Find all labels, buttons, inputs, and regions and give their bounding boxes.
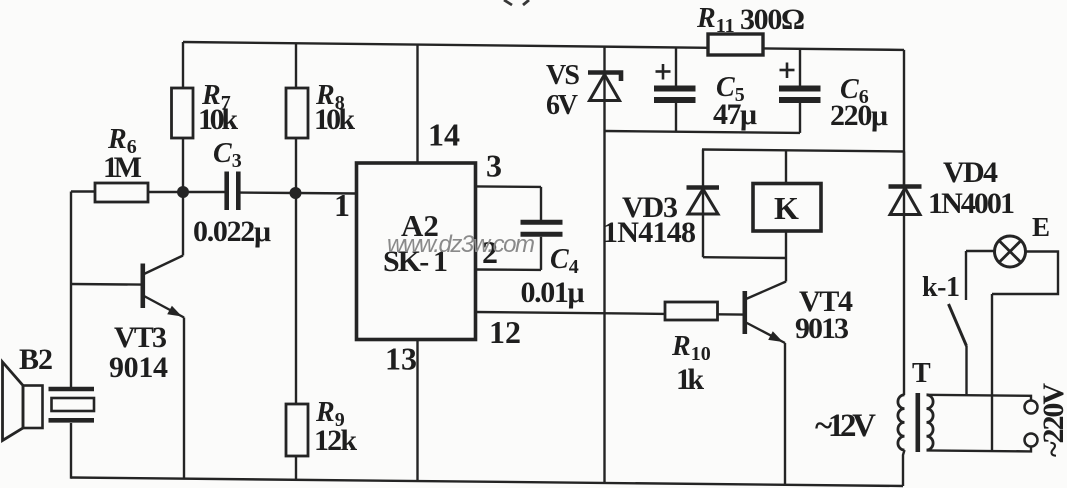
svg-text:VS: VS xyxy=(546,60,580,91)
capacitor C3 plates xyxy=(227,172,239,211)
transistor VT3 emitter line xyxy=(144,296,184,318)
wire left vertical (B2/base/R6 node) xyxy=(70,192,72,388)
transformer T primary winding xyxy=(898,395,905,450)
wire transformer primary bottom lead xyxy=(903,450,905,486)
top cut figure mark left xyxy=(504,0,512,5)
svg-text:K: K xyxy=(774,190,799,226)
op-amp U1 IC A2 box xyxy=(357,163,476,340)
svg-text:3: 3 xyxy=(486,148,502,184)
svg-text:B2: B2 xyxy=(19,343,53,376)
svg-text:9013: 9013 xyxy=(795,312,849,345)
svg-text:10k: 10k xyxy=(314,103,355,136)
zener diode VS cathode bar xyxy=(588,73,621,82)
svg-text:9014: 9014 xyxy=(109,351,168,384)
transistor VT3 collector line xyxy=(144,256,183,275)
transistor VT4 emitter arrow xyxy=(768,331,783,342)
wire VT3 emitter to ground xyxy=(183,318,185,479)
transistor VT4 emitter line xyxy=(746,323,785,344)
piezo element disc xyxy=(52,398,95,411)
wire right-side vertical 12V feed xyxy=(903,50,905,185)
diode VD4 cathode bar xyxy=(889,184,922,189)
wire C4 top lead xyxy=(540,187,542,220)
svg-text:www.dz3w.com: www.dz3w.com xyxy=(387,231,535,258)
wire R9 top lead xyxy=(295,193,297,404)
wire R6 right lead xyxy=(148,191,183,193)
wire C5 bottom lead xyxy=(675,103,677,132)
wire C6 bottom lead xyxy=(799,103,801,133)
capacitor C4 plates xyxy=(521,222,563,234)
wire VD4 anode lead down to transformer xyxy=(903,188,905,395)
transistor Q1 VT3 base bar xyxy=(141,264,146,309)
node junction dot A xyxy=(177,186,189,198)
transistor VT3 emitter arrow xyxy=(167,306,182,317)
wire R6 left lead xyxy=(71,190,95,192)
resistor R9 xyxy=(286,404,308,456)
wire VD3 anode horizontal to collector node xyxy=(703,256,786,259)
svg-text:1N4001: 1N4001 xyxy=(928,187,1015,220)
resistor R7 xyxy=(172,88,194,138)
svg-text:10k: 10k xyxy=(198,103,238,136)
svg-text:6V: 6V xyxy=(546,90,578,121)
wire K coil top lead xyxy=(785,150,787,183)
node junction dot B xyxy=(290,187,302,199)
transformer T core xyxy=(916,393,921,452)
wire lamp left lead xyxy=(966,250,995,252)
svg-text:1M: 1M xyxy=(103,151,142,184)
wire k-1 fixed contact xyxy=(965,251,967,300)
wire ground vertical from VS xyxy=(603,75,605,484)
C5 plus sign xyxy=(656,64,671,80)
wire C5 top lead xyxy=(675,48,677,87)
wire R7 bottom lead xyxy=(182,138,184,192)
wire R10 right lead xyxy=(718,313,743,316)
wire lamp return vertical xyxy=(991,294,993,451)
svg-text:300Ω: 300Ω xyxy=(740,3,805,36)
wire relay +12V rail xyxy=(702,150,904,152)
C6 plus sign xyxy=(780,63,795,79)
wire C3 right lead xyxy=(241,191,296,194)
svg-text:k-1: k-1 xyxy=(922,272,960,303)
svg-text:13: 13 xyxy=(385,341,417,377)
wire IC pin 1 lead xyxy=(296,192,357,195)
svg-text:VT3: VT3 xyxy=(114,321,167,354)
svg-text:~12V: ~12V xyxy=(815,408,876,444)
wire bottom ground rail xyxy=(71,478,903,487)
wire secondary bottom lead xyxy=(927,446,1032,451)
svg-text:0.01μ: 0.01μ xyxy=(521,276,585,309)
svg-text:C4: C4 xyxy=(550,244,579,278)
piezo element bottom plate xyxy=(49,418,95,423)
zener diode VS triangle xyxy=(590,75,620,101)
svg-text:12: 12 xyxy=(489,314,521,350)
wire IC pin 2 lead xyxy=(476,268,542,271)
diode VD3 triangle xyxy=(688,189,718,214)
wire secondary top lead xyxy=(927,395,1032,401)
terminal circle top xyxy=(1025,401,1038,414)
wire VS top lead xyxy=(603,47,605,71)
svg-text:VD4: VD4 xyxy=(943,156,998,189)
wire left vertical below piezo xyxy=(70,423,72,479)
wire relay rail down corner at x904 (to VD4) xyxy=(903,152,905,187)
speaker B2 driver box xyxy=(23,386,43,429)
svg-text:1k: 1k xyxy=(676,363,704,396)
svg-text:0.022μ: 0.022μ xyxy=(193,215,271,248)
wire IC pin 3 lead xyxy=(476,185,542,188)
wire IC pin 13 lead xyxy=(416,340,418,482)
speaker B2 cone xyxy=(3,362,24,441)
svg-text:1: 1 xyxy=(334,187,350,223)
svg-text:T: T xyxy=(912,358,931,389)
wire C3 left lead xyxy=(183,191,225,193)
wire VD3 top lead xyxy=(702,150,704,187)
svg-text:220μ: 220μ xyxy=(830,99,888,132)
wire C4 bottom lead xyxy=(540,237,542,270)
switch k-1 blade xyxy=(949,304,967,346)
svg-text:1N4148: 1N4148 xyxy=(603,216,696,249)
wire lamp right lead xyxy=(992,252,1058,295)
svg-text:14: 14 xyxy=(428,117,460,153)
svg-text:C3: C3 xyxy=(213,138,242,172)
svg-text:E: E xyxy=(1032,212,1050,242)
wire R8 top lead xyxy=(295,43,297,88)
resistor R8 xyxy=(286,88,308,138)
transistor Q2 VT4 base bar xyxy=(743,291,748,334)
wire R8 bottom lead xyxy=(295,138,297,193)
wire VT3 base lead xyxy=(71,283,141,286)
svg-text:47μ: 47μ xyxy=(713,98,757,131)
transistor VT4 collector line xyxy=(746,282,786,300)
top cut figure mark right xyxy=(523,0,529,5)
wire capacitor-bottom ground bus xyxy=(605,131,801,133)
terminal circle bottom xyxy=(1025,434,1038,447)
resistor R10 xyxy=(665,302,718,320)
transformer T secondary winding xyxy=(927,395,934,450)
svg-text:R11: R11 xyxy=(696,3,735,37)
diode VD3 cathode bar xyxy=(687,185,720,190)
wire VT3 collector to node A xyxy=(182,192,184,256)
wire VD3 anode lead down xyxy=(702,189,704,257)
capacitor C6 plates xyxy=(779,89,821,101)
wire R7 top lead xyxy=(182,42,184,88)
lamp E circle xyxy=(995,236,1026,267)
wire R9 bottom lead xyxy=(295,456,297,480)
svg-text:R10: R10 xyxy=(671,331,711,365)
resistor R11 xyxy=(708,34,763,55)
wire top supply rail right segment xyxy=(763,48,904,50)
wire C6 top lead xyxy=(799,49,801,86)
wire K coil bottom lead xyxy=(785,231,787,282)
piezo element top plate xyxy=(49,387,95,392)
diode VD4 triangle xyxy=(890,188,920,215)
svg-text:~220V: ~220V xyxy=(1037,383,1067,457)
relay K box xyxy=(753,184,821,232)
resistor R6 xyxy=(95,183,148,202)
wire VT4 emitter to ground xyxy=(784,343,786,485)
svg-text:12k: 12k xyxy=(314,424,357,457)
wire IC pin 12 lead xyxy=(476,312,666,314)
wire k-1 bottom lead xyxy=(965,346,967,395)
wire top supply rail left segment xyxy=(183,42,708,48)
capacitor C5 plates xyxy=(654,89,696,101)
lamp E cross xyxy=(999,241,1021,263)
wire IC pin 14 lead xyxy=(416,45,418,164)
